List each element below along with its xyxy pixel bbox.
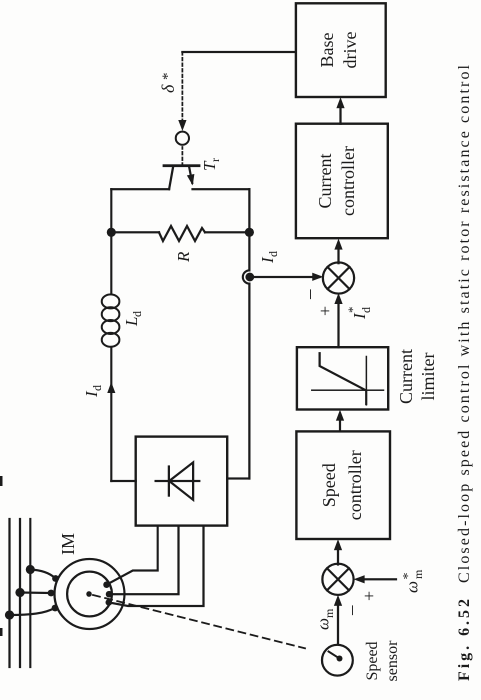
dashed delta wire	[181, 52, 183, 122]
scan mark top edge 1	[0, 476, 3, 486]
wire base drive output vertical	[182, 51, 296, 53]
wire transistor branch lower	[193, 188, 250, 190]
wire current controller to base drive	[339, 106, 341, 124]
supply line L1	[8, 519, 10, 667]
motor IM outer circle	[55, 559, 125, 629]
supply line L2	[19, 519, 21, 667]
node dot top bus	[107, 228, 116, 237]
wire rectifier bottom stub	[227, 477, 249, 479]
svg-text:R: R	[174, 251, 193, 263]
wire omega m from sensor	[337, 604, 339, 644]
supply line L3	[29, 519, 31, 667]
stator terminal dot 1	[52, 605, 59, 612]
svg-text:drive: drive	[340, 31, 360, 68]
svg-text:Fig. 6.52: Fig. 6.52	[456, 599, 473, 681]
speed sensor needle	[329, 652, 340, 659]
arrowhead into speed controller	[334, 539, 342, 550]
svg-text:I: I	[350, 312, 369, 320]
wire stator drop 2	[20, 591, 51, 594]
junction dot Id takeoff	[245, 273, 254, 282]
wire rotor to rectifier 3	[109, 526, 204, 606]
svg-text:Speed: Speed	[364, 641, 381, 680]
inductor Ld ring 2	[102, 320, 120, 334]
current limiter box	[297, 347, 388, 409]
summing junction S2 cross	[327, 568, 349, 590]
svg-text:d: d	[266, 251, 280, 257]
speed sensor center dot	[337, 656, 343, 662]
arrowhead omega ref into S2	[354, 575, 365, 583]
node dot bottom bus	[245, 228, 254, 237]
svg-text:d: d	[359, 307, 373, 313]
svg-text:*: *	[345, 307, 360, 314]
svg-text:I: I	[82, 390, 101, 398]
svg-text:I: I	[258, 256, 277, 264]
arrowhead omega m into S2	[334, 595, 342, 606]
diode cathode bar	[168, 467, 170, 496]
wire stator drop 1	[10, 608, 55, 615]
svg-text:–: –	[341, 605, 362, 616]
junction dot on L3	[26, 565, 35, 574]
junction dot on L2	[15, 588, 24, 597]
arrowhead into current controller	[334, 239, 342, 250]
resistor R zigzag	[159, 226, 205, 241]
wire top dc bus left	[110, 347, 112, 481]
wire omega ref input	[364, 578, 396, 580]
dashed shaft line motor to sensor	[93, 595, 305, 648]
svg-text:+: +	[315, 306, 335, 316]
svg-text:d: d	[130, 311, 144, 317]
svg-text:IM: IM	[58, 533, 78, 555]
svg-text:L: L	[122, 317, 141, 327]
svg-text:Closed-loop speed control with: Closed-loop speed control with static ro…	[456, 64, 473, 583]
inductor Ld ring 1	[102, 333, 120, 347]
wire limiter to S1	[337, 302, 339, 347]
current controller box	[296, 124, 388, 239]
arrowhead into limiter	[336, 410, 344, 421]
svg-text:–: –	[299, 289, 320, 300]
wire rotor to rectifier 2	[109, 526, 179, 595]
svg-text:Base: Base	[317, 33, 337, 68]
transistor Tr emitter arrowhead	[187, 174, 195, 186]
limiter vertical axis	[312, 389, 384, 391]
transistor Tr emitter	[189, 166, 192, 183]
diode vertical lead	[156, 480, 200, 482]
svg-text:Current: Current	[396, 349, 416, 404]
wire bottom dc bus right part	[248, 189, 250, 270]
svg-text:+: +	[359, 591, 379, 601]
wire stator drop 3	[30, 570, 55, 579]
arrowhead into coupling circle	[178, 120, 186, 131]
rectifier box	[136, 437, 228, 526]
summing junction S2 circle	[322, 564, 353, 595]
inductor Ld ring 3	[102, 307, 120, 321]
svg-text:m: m	[411, 569, 425, 579]
rotor terminal dot 3	[106, 599, 113, 606]
resistor R branch bottom lead	[205, 231, 249, 233]
dashed base lead bar to circle	[181, 147, 183, 166]
svg-text:controller: controller	[338, 146, 358, 216]
arrow Id on top bus	[107, 382, 115, 393]
svg-text:r: r	[208, 158, 222, 162]
transistor Tr base bar	[164, 164, 199, 167]
base drive box	[296, 3, 386, 97]
wire rectifier top stub	[111, 480, 135, 482]
limiter horizontal axis	[365, 357, 367, 405]
motor IM inner circle	[67, 572, 112, 617]
summing junction S1 cross	[328, 267, 350, 289]
scan mark top edge 2	[0, 628, 3, 636]
resistor R branch top lead	[111, 231, 159, 233]
arrowhead Id into summer	[312, 273, 323, 281]
wire speed controller to limiter	[339, 419, 341, 431]
motor shaft center dot	[86, 591, 92, 597]
svg-text:sensor: sensor	[384, 640, 401, 682]
wire Id sense down	[251, 276, 320, 278]
svg-text:Speed: Speed	[319, 463, 339, 507]
speed sensor circle	[322, 645, 353, 676]
wire S2 to speed controller	[337, 548, 339, 565]
wire rotor to rectifier 1	[107, 526, 158, 585]
arrowhead into S1 left	[334, 293, 342, 304]
stator terminal dot 3	[52, 575, 59, 582]
svg-text:ω: ω	[314, 618, 333, 630]
svg-text:ω: ω	[403, 581, 422, 593]
svg-text:m: m	[322, 608, 336, 618]
svg-text:d: d	[90, 385, 104, 391]
stator terminal dot 2	[48, 590, 55, 597]
svg-text:Current: Current	[315, 154, 335, 209]
arrowhead into base drive	[336, 97, 344, 108]
speed controller box	[296, 431, 390, 539]
wire bottom dc bus left part	[248, 284, 250, 479]
wire S1 to current controller	[337, 247, 339, 263]
svg-text:controller: controller	[345, 450, 365, 520]
svg-text:δ: δ	[158, 84, 178, 93]
hop arc over Id tap	[243, 270, 250, 283]
wire top dc bus right	[110, 189, 112, 294]
summing junction S1 circle	[323, 262, 354, 293]
rotor terminal dot 1	[103, 581, 110, 588]
diode triangle	[169, 462, 193, 499]
transistor Tr collector	[169, 166, 173, 190]
svg-text:limiter: limiter	[418, 353, 438, 401]
svg-text:*: *	[160, 73, 176, 81]
base drive coupling circle	[176, 132, 189, 145]
inductor Ld ring 4	[102, 294, 120, 308]
junction dot on L1	[5, 610, 14, 619]
rotor terminal dot 2	[106, 591, 113, 598]
wire transistor branch upper	[111, 188, 169, 190]
limiter characteristic	[320, 353, 367, 404]
